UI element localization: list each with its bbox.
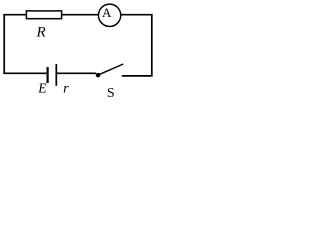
switch S blade: [98, 64, 123, 75]
battery E short plate: [46, 67, 48, 83]
wire battery to switch: [56, 72, 96, 74]
ammeter U1 circle: [98, 4, 120, 26]
switch S pivot dot: [96, 73, 101, 78]
svg-text:r: r: [63, 81, 69, 96]
svg-text:A: A: [102, 5, 112, 20]
wire left loop: top-left corner, left vertical, bottom-left run to battery: [4, 15, 46, 74]
wire ammeter to top-right corner, right vertical, bottom-right to switch contact: [121, 15, 152, 76]
resistor R1: [26, 11, 61, 19]
svg-text:E: E: [37, 81, 47, 96]
svg-text:R: R: [36, 25, 46, 41]
svg-text:S: S: [107, 86, 115, 100]
battery E long plate: [55, 64, 57, 86]
wire resistor to ammeter: [62, 14, 99, 16]
